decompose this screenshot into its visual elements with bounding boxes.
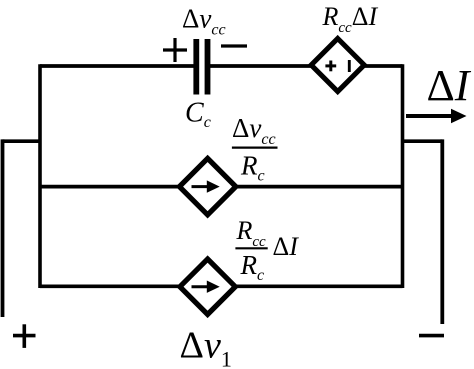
U1 internal plus sign bbox=[325, 61, 336, 72]
wire bottom branch left bbox=[40, 284, 182, 288]
wire right terminal lead bbox=[440, 139, 444, 324]
capacitor C_c right plate bbox=[205, 39, 211, 95]
capacitor minus polarity sign bbox=[221, 44, 247, 47]
svg-text:Δvcc: Δvcc bbox=[182, 3, 226, 38]
svg-text:Rc: Rc bbox=[240, 150, 265, 184]
wire left terminal lead bbox=[1, 139, 5, 317]
wire right bus bbox=[401, 64, 405, 288]
svg-text:ΔI: ΔI bbox=[427, 61, 472, 110]
wire left bus bbox=[38, 64, 42, 288]
fraction bar middle bbox=[232, 147, 278, 149]
U1 internal minus bar bbox=[348, 60, 351, 72]
terminal minus sign (bottom right) bbox=[419, 334, 444, 338]
current source G2 diamond (bottom) bbox=[180, 259, 235, 314]
svg-text:Rc: Rc bbox=[240, 250, 265, 284]
wire top rail middle segment bbox=[210, 64, 315, 68]
wire top rail right segment bbox=[361, 64, 403, 68]
terminal plus sign (bottom left) bbox=[13, 324, 36, 348]
capacitor plus polarity sign bbox=[163, 38, 187, 62]
G1 internal arrow bbox=[192, 185, 209, 188]
output current arrow bbox=[406, 114, 453, 118]
wire right terminal jog bbox=[403, 139, 443, 143]
svg-text:Cc: Cc bbox=[185, 98, 211, 132]
wire top rail left segment bbox=[40, 64, 194, 68]
wire left terminal jog bbox=[3, 139, 42, 143]
dependent voltage source U1 diamond bbox=[311, 39, 364, 92]
current source G1 diamond (middle) bbox=[179, 158, 235, 214]
svg-text:Rcc: Rcc bbox=[236, 216, 267, 250]
svg-text:Δv1: Δv1 bbox=[180, 324, 232, 369]
wire middle branch left bbox=[40, 185, 182, 189]
G2 internal arrow bbox=[192, 285, 209, 288]
wire bottom branch right bbox=[233, 284, 403, 288]
fraction bar bottom bbox=[235, 247, 267, 249]
svg-text:RccΔI: RccΔI bbox=[322, 2, 379, 36]
capacitor C_c left plate bbox=[193, 39, 199, 95]
svg-text:Δvcc: Δvcc bbox=[232, 113, 276, 148]
wire middle branch right bbox=[233, 185, 403, 189]
svg-text:ΔI: ΔI bbox=[273, 232, 300, 261]
